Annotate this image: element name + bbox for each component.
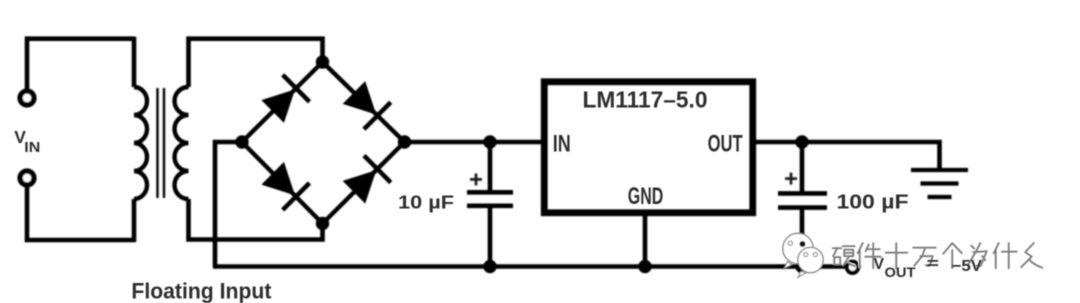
node: bridge left junction [235, 135, 248, 148]
node: OUT rail / C2 junction [795, 135, 808, 148]
wire: floating-input loop top edge [25, 36, 134, 41]
char ge line [943, 243, 962, 268]
wire: 100uF top lead [800, 142, 805, 192]
svg-text:V: V [874, 256, 885, 273]
terminal: V_IN top [20, 91, 34, 105]
wire: secondary top vertical and top rail to bridge top node [189, 39, 323, 87]
wire: primary top vertical [132, 37, 137, 87]
char shi line [886, 243, 908, 268]
diode D2 (top node to right node) [341, 79, 391, 129]
transformer T1 core [158, 88, 165, 198]
wire: 10uF top lead [488, 142, 493, 191]
wire: left stub to top terminal [25, 37, 30, 89]
watermark hanzi (embossed): white highlight layer then gray line layer [832, 242, 1042, 268]
terminal: V_IN bottom [20, 171, 34, 185]
wire: floating-input loop bottom edge [25, 238, 134, 243]
char jian highlight [857, 242, 880, 267]
char me highlight [1021, 242, 1042, 267]
char ge highlight [943, 242, 962, 267]
capacitor C1 10uF plates [467, 192, 513, 206]
svg-text:OUT: OUT [885, 265, 917, 280]
node: IN rail / C1 junction [483, 135, 496, 148]
diode D1 (left node to top node) [259, 75, 309, 125]
char shi highlight [885, 242, 907, 267]
watermark logo: back bubble [783, 233, 813, 268]
node: bridge top junction [316, 55, 329, 68]
regulator U1 LM1117-5.0 box [544, 82, 753, 213]
char wan highlight [913, 247, 936, 265]
char ying line [833, 246, 855, 266]
svg-text:IN: IN [24, 139, 40, 156]
char wan line [913, 248, 936, 266]
char ying highlight [832, 245, 854, 265]
transformer T1 primary winding [134, 87, 147, 199]
svg-text:LM1117–5.0: LM1117–5.0 [583, 87, 708, 113]
bridge rectifier edges [242, 62, 405, 224]
capacitor C1 polarity plus [470, 173, 482, 185]
diode D3 (left node to bottom node) [259, 160, 309, 210]
svg-text:GND: GND [628, 183, 664, 210]
wire: bridge right node to regulator IN [405, 140, 542, 145]
wire: 10uF bottom lead [488, 208, 493, 267]
label: V_OUT = -5V [874, 256, 983, 281]
wire: primary bottom vertical [132, 199, 137, 242]
svg-text:100 µF: 100 µF [837, 191, 909, 214]
wire: bridge left node to ground rail (down) [215, 142, 242, 267]
transformer T1 secondary winding [175, 87, 189, 199]
diode D4 (bottom node to right node) [341, 156, 391, 206]
wire: bottom ground rail [213, 264, 846, 269]
node: bridge right junction [398, 135, 411, 148]
char shen highlight [993, 242, 1016, 267]
terminal: V_OUT [847, 262, 858, 273]
svg-text:10 µF: 10 µF [398, 191, 454, 212]
capacitor C2 100uF plates [778, 193, 827, 207]
svg-text:=: = [927, 256, 940, 273]
node: bridge bottom junction [316, 217, 329, 230]
char wei line [969, 243, 987, 266]
wire: 100uF bottom lead [800, 210, 805, 267]
svg-text:−5V: −5V [952, 258, 983, 275]
watermark: WeChat logo + text [783, 233, 1042, 277]
char jian line [858, 243, 881, 268]
svg-text:OUT: OUT [708, 131, 743, 158]
wire: left stub from bottom terminal to bottom edge [25, 187, 30, 242]
char me line [1021, 243, 1042, 268]
capacitor C2 polarity plus [785, 173, 797, 185]
watermark logo: front bubble [798, 247, 823, 277]
wire: secondary bottom vertical and bottom link to bridge bottom node [189, 199, 323, 240]
svg-text:IN: IN [553, 131, 571, 158]
char shen line [994, 243, 1017, 268]
svg-text:Floating Input: Floating Input [131, 279, 272, 303]
node: ground rail / C1 junction [483, 260, 496, 273]
wire: GND pin drop [643, 214, 648, 267]
ground symbol (earth) [911, 170, 968, 197]
node: ground rail / GND pin junction [638, 260, 651, 273]
wire: regulator OUT to ground symbol [756, 142, 940, 170]
char wei highlight [968, 242, 986, 265]
node: ground rail / C2 junction [795, 260, 808, 273]
